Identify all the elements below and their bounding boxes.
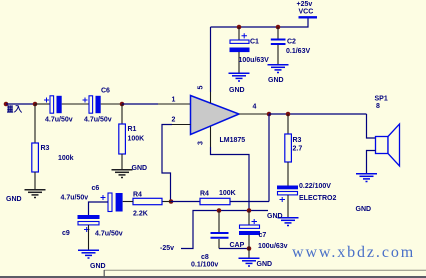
svg-text:R4: R4 <box>200 191 209 198</box>
value 4.7u/50v <box>84 117 112 124</box>
node input terminal <box>4 102 9 107</box>
wire pin2 feedback route <box>162 125 191 202</box>
wire c6 to c9 <box>89 202 109 215</box>
wire -25V rail <box>181 211 268 249</box>
wire cap C6 to junction <box>101 103 122 105</box>
svg-text:SP1: SP1 <box>375 96 388 103</box>
junction VCC/C1 <box>237 25 242 30</box>
label 输入 (input) <box>7 105 22 112</box>
designator SP1 <box>375 96 388 103</box>
value 0.22/100V <box>299 183 331 190</box>
svg-text:GND: GND <box>257 261 273 268</box>
junction feedback node <box>169 199 174 204</box>
label +25v <box>297 1 313 8</box>
svg-text:GND: GND <box>90 263 106 270</box>
capacitor C1 100u/63V <box>230 27 250 73</box>
designator R4 <box>200 191 209 198</box>
wire input rail <box>6 103 35 105</box>
junction input/R3 <box>33 102 38 107</box>
designator R3 <box>41 145 50 152</box>
svg-text:4.7u/50v: 4.7u/50v <box>45 117 73 124</box>
svg-text:4: 4 <box>253 104 257 111</box>
svg-text:+25v: +25v <box>297 1 313 8</box>
label VCC <box>299 9 314 16</box>
capacitor 0.22/100V ELECTRO2 (zobel) <box>277 186 298 218</box>
svg-text:2.7: 2.7 <box>293 146 303 153</box>
designator C6 <box>101 88 110 95</box>
junction output/R3 <box>286 112 291 117</box>
capacitor c9 4.7u/50v <box>78 215 100 250</box>
junction c7/gnd <box>247 246 252 251</box>
junction output/feedback <box>267 112 272 117</box>
resistor R3 2.7 (zobel) <box>285 114 292 186</box>
svg-text:R3: R3 <box>41 145 50 152</box>
resistor R3 100k <box>32 104 39 189</box>
value 8 <box>376 103 380 110</box>
svg-text:100K: 100K <box>219 190 236 197</box>
ground R1 <box>112 170 133 178</box>
ground C2 <box>268 65 289 73</box>
svg-text:c8: c8 <box>201 254 209 261</box>
svg-text:C2: C2 <box>287 39 296 46</box>
pin number 3 <box>198 141 205 145</box>
label GND <box>257 261 273 268</box>
wire speaker to ground <box>367 151 376 174</box>
svg-text:R1: R1 <box>128 126 137 133</box>
wire pin5 to VCC rail <box>210 27 212 103</box>
svg-text:R3: R3 <box>293 137 302 144</box>
designator c6 <box>92 185 100 192</box>
pin number 2 <box>172 117 176 124</box>
designator R3 <box>293 137 302 144</box>
ground zobel <box>278 218 299 226</box>
svg-text:www.xbdz.com: www.xbdz.com <box>292 244 415 261</box>
svg-text:4.7u/50v: 4.7u/50v <box>84 117 112 124</box>
resistor R1 100K <box>119 104 126 169</box>
svg-text:C1: C1 <box>250 39 259 46</box>
svg-text:1: 1 <box>172 97 176 104</box>
svg-text:2.2K: 2.2K <box>133 211 148 218</box>
wire output rail <box>269 113 367 115</box>
ground c7 <box>239 258 260 266</box>
op-amp U1 LM1875 <box>191 96 240 135</box>
wire to speaker <box>367 114 376 138</box>
value ELECTRO2 <box>299 195 336 202</box>
capacitor c7 100u/63v <box>239 211 260 258</box>
svg-text:GND: GND <box>267 213 283 220</box>
capacitor 4.7u/50v input coupling A <box>44 96 62 113</box>
svg-text:0.1/63V: 0.1/63V <box>286 48 310 55</box>
label GND <box>132 165 148 172</box>
value 100K <box>219 190 236 197</box>
designator LM1875 <box>220 137 246 144</box>
capacitor C2 0.1/63V <box>271 27 286 64</box>
svg-text:4.7u/50v: 4.7u/50v <box>61 195 89 202</box>
svg-text:c7: c7 <box>259 232 267 239</box>
resistor R4 2.2K <box>123 198 171 204</box>
value 4.7u/50v <box>45 117 73 124</box>
svg-text:R4: R4 <box>133 192 142 199</box>
svg-text:GND: GND <box>132 165 148 172</box>
wire feedback node to R4 100K <box>171 201 200 203</box>
svg-text:VCC: VCC <box>299 9 314 16</box>
label -25v <box>160 245 174 252</box>
value 100u/63v <box>258 243 288 250</box>
capacitor C6 4.7u/50v input coupling B <box>83 96 101 113</box>
pin number 5 <box>198 86 205 90</box>
label GND <box>90 263 106 270</box>
wire c8 to c7 ground row <box>219 248 249 250</box>
svg-text:5: 5 <box>198 86 205 90</box>
wire to C4 <box>35 103 50 105</box>
wire VCC rail <box>211 18 309 28</box>
pin number 1 <box>172 97 176 104</box>
label GND <box>6 196 22 203</box>
svg-text:GND: GND <box>268 77 284 84</box>
value CAP <box>230 242 245 249</box>
junction -25V/c8 <box>217 208 222 213</box>
value 100u/63V <box>239 57 270 64</box>
svg-text:C6: C6 <box>101 88 110 95</box>
label GND <box>229 87 245 94</box>
value 100k <box>58 155 74 162</box>
designator C2 <box>287 39 296 46</box>
designator C1 <box>250 39 259 46</box>
designator c9 <box>62 230 70 237</box>
speaker SP1 <box>376 124 400 166</box>
ground speaker <box>356 174 377 182</box>
ground R3 <box>25 190 46 198</box>
ground c9 <box>78 250 99 258</box>
wire pin3 to -25V rail <box>211 127 250 211</box>
capacitor c8 0.1/100v CAP <box>211 211 229 249</box>
watermark www.xbdz.com <box>292 244 415 261</box>
value 2.7 <box>293 146 303 153</box>
value 0.1/63V <box>286 48 310 55</box>
pin number 4 <box>253 104 257 111</box>
svg-text:100u/63V: 100u/63V <box>239 57 270 64</box>
label GND <box>356 206 372 213</box>
value 4.7u/50v <box>61 195 89 202</box>
junction C6/R1 <box>120 102 125 107</box>
svg-text:c9: c9 <box>62 230 70 237</box>
ground C1 <box>229 73 250 81</box>
svg-text:100k: 100k <box>58 155 74 162</box>
svg-text:c6: c6 <box>92 185 100 192</box>
svg-text:LM1875: LM1875 <box>220 137 246 144</box>
label GND <box>268 77 284 84</box>
svg-text:4.7u/50v: 4.7u/50v <box>95 231 123 238</box>
svg-text:ELECTRO2: ELECTRO2 <box>299 195 336 202</box>
junction -25V/c7 <box>247 208 252 213</box>
wire feedback vertical <box>268 114 270 202</box>
svg-text:GND: GND <box>6 196 22 203</box>
designator R4 <box>133 192 142 199</box>
svg-text:3: 3 <box>198 141 205 145</box>
wire between input caps <box>62 103 89 105</box>
wire output pin4 <box>239 113 269 115</box>
svg-text:100u/63v: 100u/63v <box>258 243 288 250</box>
svg-text:100K: 100K <box>128 136 145 143</box>
svg-text:0.1/100v: 0.1/100v <box>191 262 218 269</box>
value 4.7u/50v <box>95 231 123 238</box>
designator c8 <box>201 254 209 261</box>
junction VCC/C2 <box>276 25 281 30</box>
svg-text:2: 2 <box>172 117 176 124</box>
wire pin1 lead <box>122 103 191 105</box>
value 100K <box>128 136 145 143</box>
svg-text:-25v: -25v <box>160 245 174 252</box>
value 0.1/100v <box>191 262 218 269</box>
svg-text:0.22/100V: 0.22/100V <box>299 183 331 190</box>
svg-text:8: 8 <box>376 103 380 110</box>
label GND <box>267 213 283 220</box>
svg-text:GND: GND <box>229 87 245 94</box>
designator R1 <box>128 126 137 133</box>
value 2.2K <box>133 211 148 218</box>
power symbol VCC +25v <box>299 16 318 18</box>
svg-text:GND: GND <box>356 206 372 213</box>
resistor R4 100K <box>200 198 230 204</box>
wire R4 100K to feedback vertical <box>230 201 269 203</box>
designator c7 <box>259 232 267 239</box>
capacitor c6 4.7u/50v (feedback) <box>101 193 123 212</box>
